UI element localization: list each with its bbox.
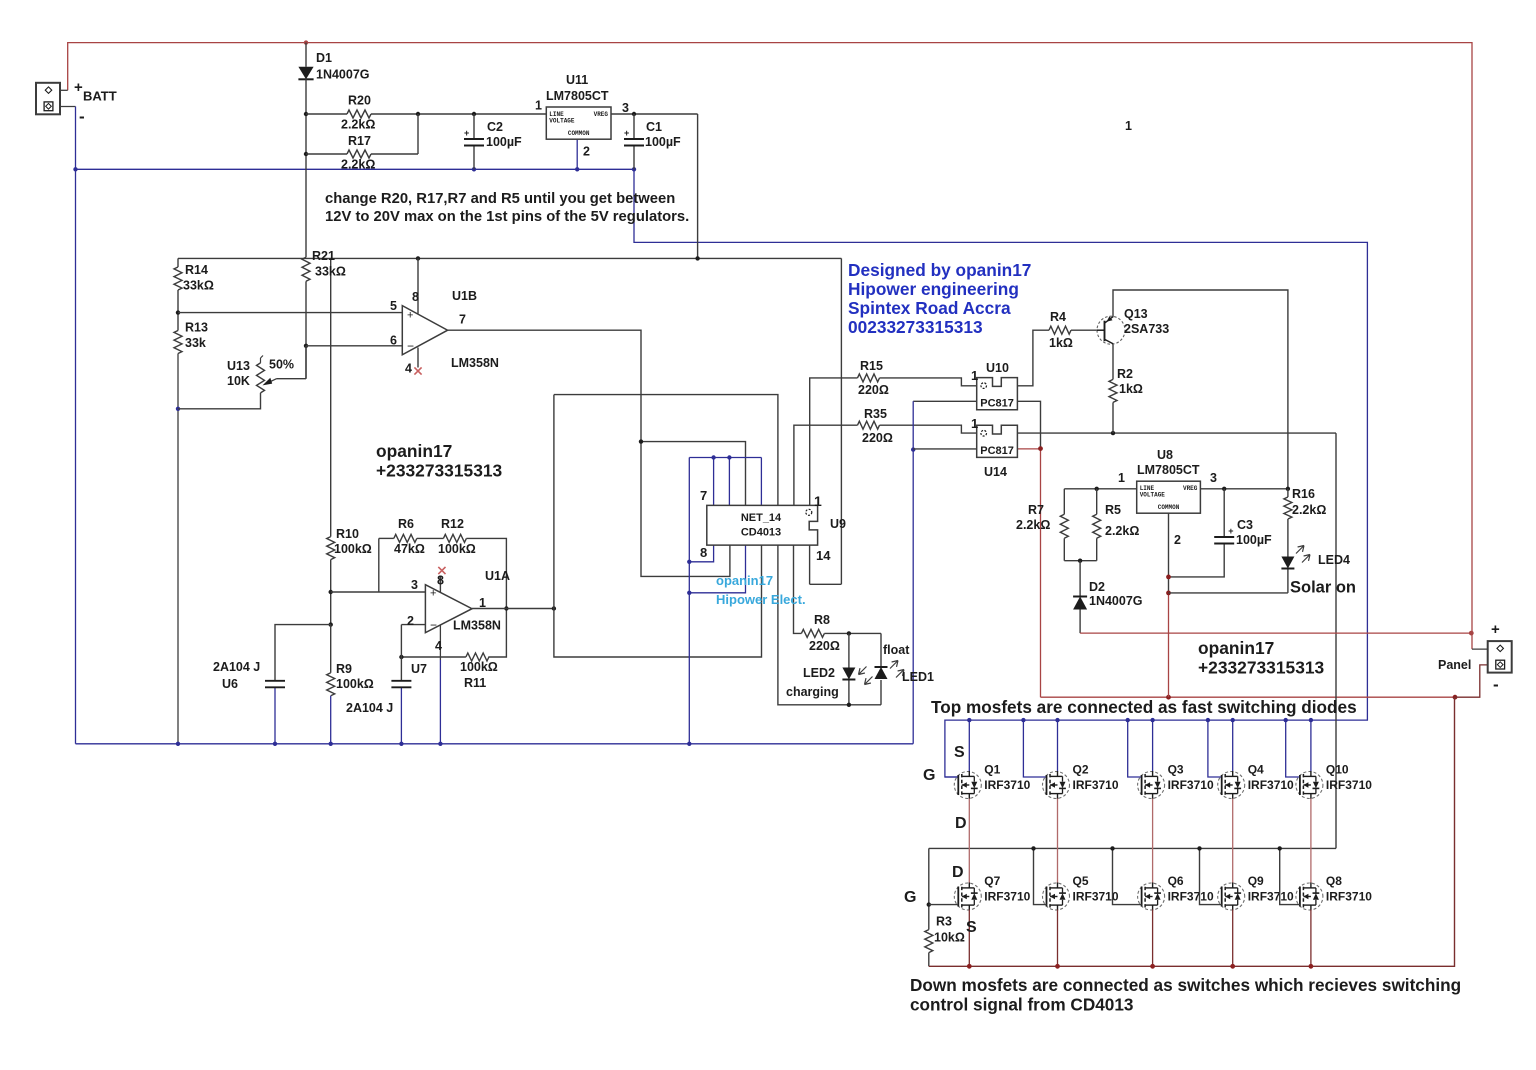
svg-text:100µF: 100µF [645, 135, 681, 149]
svg-text:4: 4 [435, 639, 442, 653]
svg-text:Solar on: Solar on [1290, 579, 1356, 597]
svg-text:2.2kΩ: 2.2kΩ [341, 118, 375, 132]
svg-text:U10: U10 [986, 361, 1009, 375]
svg-text:Spintex Road Accra: Spintex Road Accra [848, 298, 1011, 318]
svg-text:Designed by opanin17: Designed by opanin17 [848, 260, 1031, 280]
svg-text:IRF3710: IRF3710 [1326, 778, 1372, 792]
svg-text:1kΩ: 1kΩ [1049, 336, 1073, 350]
svg-text:220Ω: 220Ω [862, 431, 893, 445]
svg-text:Q4: Q4 [1248, 763, 1264, 777]
svg-text:IRF3710: IRF3710 [984, 778, 1030, 792]
svg-text:COMMON: COMMON [1158, 504, 1180, 511]
svg-text:LM358N: LM358N [453, 619, 501, 633]
svg-text:LED4: LED4 [1318, 553, 1350, 567]
svg-text:C1: C1 [646, 120, 662, 134]
svg-text:100µF: 100µF [1236, 533, 1272, 547]
svg-text:U14: U14 [984, 465, 1007, 479]
svg-text:LM7805CT: LM7805CT [546, 89, 609, 103]
svg-text:U1A: U1A [485, 569, 510, 583]
svg-text:1: 1 [971, 416, 978, 431]
svg-text:2A104 J: 2A104 J [346, 701, 393, 715]
svg-text:1: 1 [479, 596, 486, 610]
svg-text:+: + [464, 128, 469, 138]
svg-text:LM7805CT: LM7805CT [1137, 463, 1200, 477]
svg-text:VOLTAGE: VOLTAGE [1140, 492, 1166, 499]
svg-text:8: 8 [700, 545, 707, 560]
svg-text:1: 1 [971, 368, 978, 383]
svg-text:R11: R11 [464, 676, 486, 690]
svg-text:U7: U7 [411, 662, 427, 676]
svg-text:IRF3710: IRF3710 [984, 890, 1030, 904]
svg-text:−: − [407, 339, 414, 353]
svg-text:PC817: PC817 [980, 445, 1014, 457]
svg-text:R3: R3 [936, 915, 952, 929]
svg-text:G: G [904, 889, 916, 906]
svg-text:3: 3 [622, 101, 629, 115]
svg-text:R14: R14 [185, 263, 208, 277]
svg-text:Hipower Elect.: Hipower Elect. [716, 592, 806, 607]
svg-text:7: 7 [459, 313, 466, 327]
svg-text:Q7: Q7 [984, 874, 1000, 888]
svg-text:33k: 33k [185, 336, 206, 350]
svg-text:R6: R6 [398, 517, 414, 531]
svg-text:opanin17: opanin17 [376, 441, 452, 461]
svg-text:1: 1 [535, 99, 542, 113]
svg-text:50%: 50% [269, 358, 294, 372]
svg-text:Q9: Q9 [1248, 874, 1264, 888]
svg-text:R15: R15 [860, 359, 883, 373]
svg-text:VOLTAGE: VOLTAGE [549, 118, 575, 125]
svg-text:VREG: VREG [1183, 485, 1198, 492]
svg-text:3: 3 [1210, 471, 1217, 485]
svg-text:S: S [954, 744, 965, 761]
svg-text:2SA733: 2SA733 [1124, 322, 1169, 336]
svg-text:-: - [1493, 675, 1499, 694]
svg-text:LED1: LED1 [902, 670, 934, 684]
svg-text:D2: D2 [1089, 580, 1105, 594]
svg-text:IRF3710: IRF3710 [1073, 778, 1119, 792]
svg-text:PC817: PC817 [980, 397, 1014, 409]
svg-text:U1B: U1B [452, 289, 477, 303]
svg-text:R35: R35 [864, 407, 887, 421]
svg-text:4: 4 [405, 362, 412, 376]
svg-text:47kΩ: 47kΩ [394, 542, 425, 556]
svg-text:33kΩ: 33kΩ [315, 265, 346, 279]
svg-text:S: S [966, 919, 977, 936]
svg-text:charging: charging [786, 685, 839, 699]
svg-text:COMMON: COMMON [568, 130, 590, 137]
svg-text:BATT: BATT [83, 89, 117, 104]
svg-text:+233273315313: +233273315313 [1198, 658, 1325, 678]
svg-text:2.2kΩ: 2.2kΩ [341, 158, 375, 172]
svg-text:+: + [624, 128, 629, 138]
svg-text:D: D [955, 815, 967, 832]
svg-text:1: 1 [814, 493, 822, 509]
svg-text:R5: R5 [1105, 503, 1121, 517]
svg-text:−: − [430, 618, 437, 632]
svg-text:R2: R2 [1117, 367, 1133, 381]
svg-text:2.2kΩ: 2.2kΩ [1105, 524, 1139, 538]
svg-text:R4: R4 [1050, 310, 1066, 324]
svg-text:IRF3710: IRF3710 [1168, 890, 1214, 904]
svg-text:8: 8 [437, 574, 444, 588]
svg-text:+: + [407, 309, 413, 321]
svg-text:2: 2 [583, 145, 590, 159]
svg-text:G: G [923, 767, 935, 784]
svg-text:100µF: 100µF [486, 135, 522, 149]
svg-text:Hipower engineering: Hipower engineering [848, 279, 1019, 299]
svg-text:1N4007G: 1N4007G [316, 68, 370, 82]
svg-text:IRF3710: IRF3710 [1326, 890, 1372, 904]
svg-text:U8: U8 [1157, 448, 1173, 462]
svg-text:220Ω: 220Ω [809, 639, 840, 653]
svg-text:Top mosfets are connected as f: Top mosfets are connected as fast switch… [931, 697, 1357, 717]
svg-text:U11: U11 [566, 73, 588, 87]
svg-text:U9: U9 [830, 517, 846, 531]
svg-text:R17: R17 [348, 134, 371, 148]
svg-text:2: 2 [407, 614, 414, 628]
svg-text:2A104 J: 2A104 J [213, 660, 260, 674]
svg-text:-: - [79, 107, 85, 126]
svg-text:U6: U6 [222, 677, 238, 691]
svg-text:Q6: Q6 [1168, 874, 1184, 888]
svg-text:LM358N: LM358N [451, 356, 499, 370]
svg-text:00233273315313: 00233273315313 [848, 317, 983, 337]
svg-text:Q10: Q10 [1326, 763, 1349, 777]
svg-text:100kΩ: 100kΩ [334, 542, 372, 556]
svg-text:Q1: Q1 [984, 763, 1000, 777]
svg-text:R12: R12 [441, 517, 464, 531]
svg-text:10kΩ: 10kΩ [934, 931, 965, 945]
svg-text:VREG: VREG [594, 111, 609, 118]
svg-text:2.2kΩ: 2.2kΩ [1292, 503, 1326, 517]
svg-text:float: float [883, 643, 910, 657]
svg-text:C3: C3 [1237, 518, 1253, 532]
svg-text:U13: U13 [227, 359, 250, 373]
svg-text:C2: C2 [487, 120, 503, 134]
svg-text:Down mosfets are connected as: Down mosfets are connected as switches w… [910, 975, 1461, 995]
svg-text:1N4007G: 1N4007G [1089, 594, 1143, 608]
svg-text:100kΩ: 100kΩ [438, 542, 476, 556]
svg-text:+: + [74, 79, 83, 96]
svg-text:IRF3710: IRF3710 [1248, 778, 1294, 792]
svg-text:R13: R13 [185, 321, 208, 335]
svg-text:220Ω: 220Ω [858, 383, 889, 397]
svg-text:R16: R16 [1292, 487, 1315, 501]
svg-text:R7: R7 [1028, 503, 1044, 517]
svg-text:Q2: Q2 [1073, 763, 1089, 777]
svg-text:R21: R21 [312, 249, 335, 263]
svg-text:D: D [952, 864, 964, 881]
svg-text:D1: D1 [316, 51, 332, 65]
svg-text:1kΩ: 1kΩ [1119, 382, 1143, 396]
svg-text:1: 1 [1125, 119, 1132, 133]
svg-text:IRF3710: IRF3710 [1168, 778, 1214, 792]
svg-text:12V to 20V max on the 1st pins: 12V to 20V max on the 1st pins of the 5V… [325, 209, 689, 225]
svg-text:R9: R9 [336, 662, 352, 676]
svg-text:Q3: Q3 [1168, 763, 1184, 777]
svg-text:14: 14 [816, 548, 831, 563]
svg-text:3: 3 [411, 578, 418, 592]
svg-text:100kΩ: 100kΩ [460, 660, 498, 674]
svg-text:Q5: Q5 [1073, 874, 1089, 888]
svg-text:2.2kΩ: 2.2kΩ [1016, 518, 1050, 532]
svg-text:Q13: Q13 [1124, 307, 1148, 321]
svg-text:+233273315313: +233273315313 [376, 461, 503, 481]
svg-text:33kΩ: 33kΩ [183, 279, 214, 293]
svg-text:R10: R10 [336, 527, 359, 541]
svg-text:6: 6 [390, 334, 397, 348]
svg-text:control signal from CD4013: control signal from CD4013 [910, 995, 1134, 1015]
svg-text:5: 5 [390, 299, 397, 313]
svg-text:+: + [430, 588, 436, 600]
svg-text:100kΩ: 100kΩ [336, 677, 374, 691]
svg-text:2: 2 [1174, 533, 1181, 547]
svg-text:Panel: Panel [1438, 658, 1471, 672]
svg-text:7: 7 [700, 488, 707, 503]
svg-text:LED2: LED2 [803, 666, 835, 680]
svg-text:+: + [1228, 526, 1233, 536]
svg-text:1: 1 [1118, 471, 1125, 485]
svg-text:opanin17: opanin17 [1198, 638, 1274, 658]
svg-text:Q8: Q8 [1326, 874, 1342, 888]
svg-text:CD4013: CD4013 [741, 527, 781, 539]
svg-text:R8: R8 [814, 613, 830, 627]
svg-text:10K: 10K [227, 374, 250, 388]
svg-text:NET_14: NET_14 [741, 512, 782, 524]
svg-text:8: 8 [412, 290, 419, 304]
svg-text:opanin17: opanin17 [716, 573, 773, 588]
svg-text:change R20, R17,R7 and R5 unti: change R20, R17,R7 and R5 until you get … [325, 191, 675, 207]
svg-text:R20: R20 [348, 94, 371, 108]
svg-text:IRF3710: IRF3710 [1248, 890, 1294, 904]
svg-text:+: + [1491, 621, 1500, 638]
